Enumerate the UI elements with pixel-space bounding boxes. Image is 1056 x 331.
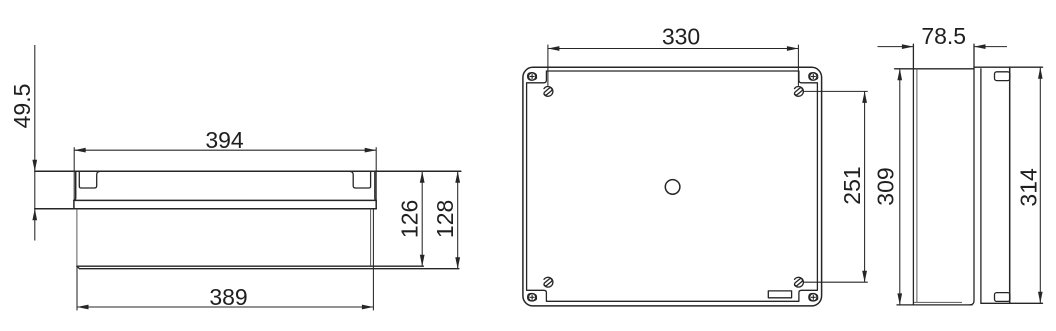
svg-text:126: 126 (396, 200, 422, 238)
front view: left latch notch (79, 171, 99, 188)
side view: body left wall with 78.5 extension (912, 44, 914, 305)
svg-text:128: 128 (432, 200, 458, 238)
dimension 49.5 (9, 45, 37, 241)
front view: body lower bottom edge extending to 128 dim (77, 266, 459, 269)
extension line 330 left (547, 45, 549, 86)
svg-text:389: 389 (209, 284, 247, 310)
extension line 394 left (73, 147, 75, 200)
dimension 78.5 (878, 23, 1008, 49)
side view: body top edge with 309 extension (895, 68, 974, 70)
plan view: center hole (665, 180, 680, 195)
front view: lip left cap (73, 200, 75, 208)
side view: lid outer face (1009, 67, 1011, 303)
svg-text:78.5: 78.5 (921, 23, 966, 49)
extension line 389 right (372, 209, 374, 311)
side view: lid top edge with 314 extension (974, 66, 1043, 68)
svg-text:251: 251 (839, 166, 865, 204)
plan view: corner screw top-left (528, 73, 537, 81)
side view: body-lid interface with 78.5 extension (970, 44, 975, 305)
side view: body bottom edge with 309 extension (897, 304, 972, 306)
plan view: mounting hole bottom-right (794, 277, 804, 287)
dimension 309 (873, 69, 903, 305)
side view: bottom latch slot (995, 293, 1010, 302)
side view: lid step line (980, 69, 982, 303)
front view: body left side (76, 209, 78, 266)
plan view: mounting hole top-left (543, 87, 553, 97)
svg-text:49.5: 49.5 (9, 84, 35, 129)
dimension 330 (548, 23, 799, 51)
front view: lid left side (74, 171, 76, 200)
front view: lip right cap (375, 200, 377, 208)
side view: body inner bottom line (914, 301, 962, 303)
dimension 314 (1015, 67, 1042, 303)
front view: right latch notch (350, 171, 370, 188)
svg-text:309: 309 (873, 167, 899, 205)
plan view: outer rounded rectangle (523, 67, 822, 306)
extension line 389 left (76, 266, 78, 310)
extension line 251 top (804, 90, 868, 92)
side view: lid bottom edge with 314 extension (981, 302, 1043, 304)
extension line 394 right (375, 147, 377, 200)
side view: body left inner wall (916, 69, 918, 303)
front view: lip top edge (74, 199, 376, 201)
plan view: corner screw bottom-left (528, 293, 537, 301)
side view: top latch slot (995, 72, 1010, 81)
dimension 394 (74, 127, 376, 153)
plan view: corner screw top-right (809, 73, 818, 81)
front view: lip bottom edge with 49.5 extension (35, 208, 376, 210)
svg-text:330: 330 (662, 23, 700, 49)
svg-text:394: 394 (205, 127, 244, 153)
plan view: mounting hole bottom-left (543, 277, 553, 287)
plan view: inner boundary with corner screw pockets (527, 71, 818, 301)
plan view: corner screw bottom-right (809, 293, 818, 301)
dimension 126 (396, 171, 424, 266)
front view: lid top edge with extension lines (35, 170, 461, 172)
extension line 251 bottom (804, 281, 868, 283)
front view: lid right side (375, 171, 376, 200)
front view: body bottom edge extending to 126 dim (77, 265, 424, 267)
dimension 128 (432, 171, 460, 268)
extension line 330 right (797, 45, 799, 86)
front view: body right side (370, 209, 372, 266)
dimension 389 (77, 284, 373, 310)
plan view: mounting hole top-right (794, 87, 804, 97)
dimension 251 (839, 91, 867, 282)
plan view: label recess bottom-right (768, 291, 791, 298)
svg-text:314: 314 (1015, 168, 1041, 207)
